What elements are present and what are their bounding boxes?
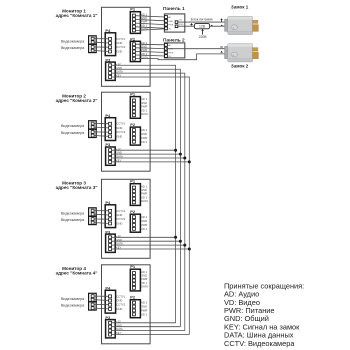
bus wire 4 (KEY) from monitor 1 P3 pin 4 [112, 77, 190, 335]
svg-text:Панель 1: Панель 1 [163, 6, 185, 12]
svg-text:PWR: PWR [168, 52, 174, 54]
wire monitor 4 P3 pin 2, end of bus wire 2 [112, 326, 181, 328]
wires P1 to panel 1 [135, 16, 165, 31]
junction dot monitor 3 on bus wire 2 [179, 240, 182, 243]
svg-text:AD: AD [168, 16, 171, 19]
svg-text:Блок питания: Блок питания [191, 17, 213, 21]
wire C panel2 GND to lock 2 [166, 48, 225, 50]
junction dot monitor 3 on bus wire 4 [188, 248, 191, 251]
wires P2 to panel 2 [135, 44, 165, 56]
up arrow near lock 1 [221, 20, 223, 22]
monitor 3 connector P2 [130, 209, 147, 232]
PSU 12V box [194, 24, 209, 29]
junction dot monitor 3 on bus wire 3 [183, 244, 186, 247]
panel 2 box [164, 43, 184, 58]
svg-text:VD: VD [168, 28, 171, 30]
wire monitor 2 P3 pin 1 to bus wire 1 [112, 149, 176, 151]
tick marks on wire B [211, 25, 213, 26]
bus wire 2 (GND) from monitor 1 P3 pin 2 [112, 69, 181, 327]
svg-text:VD: VD [168, 56, 171, 58]
svg-text:12В: 12В [199, 24, 206, 28]
lock 1 cylinder [231, 25, 237, 30]
junction dot monitor 2 on bus wire 3 [183, 157, 186, 160]
wire monitor 2 P3 pin 3 to bus wire 3 [112, 157, 185, 159]
lock 2 brass latch [253, 48, 258, 51]
lock 1 terminal tab [225, 19, 228, 31]
monitor 1 unit [61, 7, 150, 87]
wire A panel1 12v to lock1 [178, 21, 225, 23]
junction dot monitor 2 on bus wire 2 [179, 153, 182, 156]
svg-text:Замок 1: Замок 1 [231, 4, 249, 9]
wire monitor 4 P3 pin 4, end of bus wire 4 [112, 334, 190, 336]
bus wire 3 (DATA) from monitor 1 P3 pin 3 [112, 73, 185, 331]
svg-text:220В: 220В [199, 35, 208, 39]
lock 1 brass latch [253, 20, 258, 23]
svg-text:PWR: PWR [168, 25, 174, 27]
lock 1 body [228, 16, 253, 34]
svg-text:CCTV: Видеокамера: CCTV: Видеокамера [224, 339, 295, 348]
up arrow near lock 2 [220, 51, 222, 53]
panel 1 internal pins 12v / GND [175, 21, 178, 24]
junction dot monitor 3 on bus wire 1 [174, 236, 177, 239]
wire monitor 3 P3 pin 3 to bus wire 3 [112, 244, 185, 246]
junction dot monitor 2 on bus wire 1 [174, 149, 177, 152]
svg-text:адрес "Комната 2": адрес "Комната 2" [56, 98, 98, 103]
monitor 2 connector P2 [130, 122, 147, 145]
junction dot monitor 2 on bus wire 4 [188, 160, 191, 163]
panel 2 pin labels [168, 44, 174, 58]
wire B panel1 GND to PSU to lock1 [178, 25, 195, 27]
lock 2 cylinder [231, 52, 237, 57]
svg-text:адрес "Комната 4": адрес "Комната 4" [56, 271, 98, 276]
svg-text:адрес "Комната 1": адрес "Комната 1" [56, 13, 98, 18]
wire monitor 2 P3 pin 4 to bus wire 4 [112, 161, 190, 163]
wire monitor 3 P3 pin 1 to bus wire 1 [112, 236, 176, 238]
bus wire 1 (+12) from monitor 1 P3 pin 1, runs right then down to monitor 4 [112, 65, 176, 323]
panel 1 box [164, 14, 184, 32]
svg-text:адрес "Комната 3": адрес "Комната 3" [56, 185, 98, 190]
wire KEY2 from P2 pin5 to lock 2 (jog under panel 2) [135, 54, 224, 60]
220V arrow [202, 31, 204, 35]
panel 2 left pins [165, 43, 168, 57]
wire monitor 2 P3 pin 2 to bus wire 2 [112, 153, 181, 155]
minus sign near lock 2 [220, 46, 223, 48]
svg-text:AD: AD [168, 44, 171, 47]
wire monitor 4 P3 pin 1, end of bus wire 1 [112, 322, 176, 324]
monitor 4 connector P2 [130, 294, 147, 317]
svg-text:Замок 2: Замок 2 [231, 64, 249, 69]
wire monitor 3 P3 pin 4 to bus wire 4 [112, 248, 190, 250]
plus sign on wire B [190, 23, 193, 26]
wire monitor 4 P3 pin 3, end of bus wire 3 [112, 330, 185, 332]
lock 2 body [228, 44, 253, 62]
monitor 1 connector P2 [130, 36, 148, 61]
svg-text:GND: GND [168, 21, 173, 23]
svg-text:GND: GND [179, 24, 184, 26]
panel 1 left pins [165, 16, 168, 30]
panel 1 pin labels [168, 16, 174, 30]
wire monitor 3 P3 pin 2 to bus wire 2 [112, 240, 181, 242]
monitor 4 unit [61, 264, 150, 344]
monitor 3 unit [61, 179, 150, 259]
lock 2 terminal tab [225, 46, 228, 58]
monitor 2 unit [61, 92, 150, 172]
